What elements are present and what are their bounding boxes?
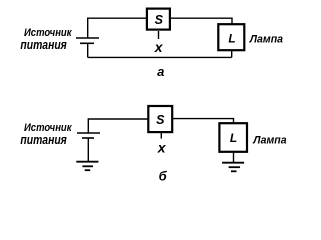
wire: lamp L to ground (b) — [233, 152, 235, 163]
wire: switch S stub down (a) — [158, 31, 160, 39]
lamp L box (b) — [219, 123, 247, 152]
svg-text:x: x — [157, 139, 167, 155]
svg-text:L: L — [230, 131, 237, 145]
wire: bottom return (a) — [88, 56, 232, 58]
svg-text:питания: питания — [20, 37, 67, 52]
wire: battery B2 top to switch S (b) — [88, 119, 147, 133]
svg-text:а: а — [157, 64, 164, 79]
wire: switch S stub down (b) — [160, 132, 162, 139]
lamp L box (a) — [218, 24, 244, 50]
battery B1 bottom plate — [80, 42, 94, 44]
svg-text:x: x — [154, 39, 164, 55]
wire: battery A bottom lead — [87, 43, 89, 57]
svg-text:S: S — [155, 13, 164, 27]
svg-text:питания: питания — [20, 132, 67, 147]
svg-text:L: L — [228, 32, 235, 46]
svg-text:б: б — [159, 168, 168, 183]
wire: battery B2 to ground — [87, 138, 89, 162]
battery B2 bottom plate — [82, 137, 94, 139]
wire: lamp L bottom stub (a) — [231, 51, 233, 58]
wire: switch S to lamp L (b) — [173, 119, 234, 122]
svg-text:S: S — [156, 113, 165, 127]
svg-text:Лампа: Лампа — [249, 34, 283, 46]
ground under lamp L (b) — [222, 162, 244, 164]
switch S box (a) — [147, 9, 170, 30]
wire: switch S to lamp L (a) — [171, 18, 232, 24]
ground under battery B2 — [76, 161, 98, 163]
wire: battery A top to switch S (a) — [88, 18, 146, 38]
svg-text:Лампа: Лампа — [252, 135, 286, 147]
battery B1 top plate — [76, 37, 99, 39]
battery B2 top plate — [77, 132, 100, 134]
switch S box (b) — [148, 106, 172, 132]
